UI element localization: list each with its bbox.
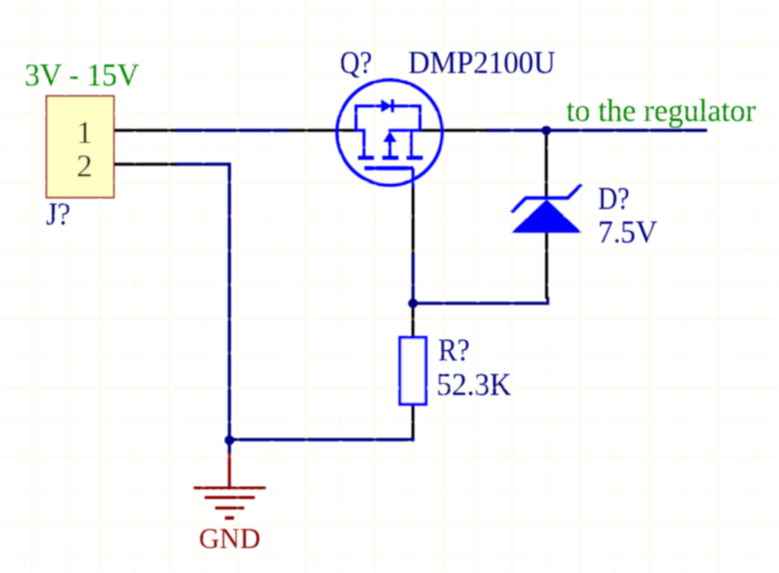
- pin 2 of J?: [114, 163, 179, 166]
- ground symbol: [194, 453, 266, 519]
- wire gate to junction: [411, 253, 414, 303]
- resistor R? body: [400, 338, 426, 405]
- wire drain to the regulator: [487, 129, 708, 132]
- diode D? anode pin: [545, 233, 548, 299]
- wire gnd stub below junction: [228, 440, 231, 454]
- svg-text:2: 2: [77, 147, 93, 183]
- svg-text:R?: R?: [438, 333, 470, 368]
- svg-text:1: 1: [77, 114, 93, 150]
- svg-text:7.5V: 7.5V: [598, 215, 658, 250]
- svg-text:GND: GND: [199, 524, 261, 555]
- wire junction to zener anode: [413, 297, 548, 303]
- transistor Q? body: [337, 80, 442, 187]
- svg-text:3V - 15V: 3V - 15V: [25, 58, 140, 93]
- resistor R? pin 1: [411, 306, 414, 337]
- transistor Q? source pin: [289, 129, 357, 132]
- wire ground rail horizontal: [229, 436, 413, 440]
- transistor Q? gate pin: [412, 186, 415, 255]
- diode D? cathode pin: [545, 130, 548, 197]
- svg-text:to the regulator: to the regulator: [566, 93, 756, 128]
- svg-text:DMP2100U: DMP2100U: [408, 45, 556, 80]
- svg-text:D?: D?: [598, 181, 629, 216]
- wire pin2 down to ground rail: [178, 164, 230, 440]
- svg-text:J?: J?: [46, 197, 70, 232]
- svg-text:52.3K: 52.3K: [437, 367, 512, 402]
- pin 1 of J?: [114, 129, 179, 132]
- junction node at drain / zener: [542, 126, 552, 136]
- transistor Q? drain pin: [420, 129, 488, 132]
- junction node at ground: [225, 435, 235, 445]
- junction node at gate / resistor: [408, 299, 418, 309]
- svg-text:Q?: Q?: [340, 45, 372, 80]
- resistor R? pin 2: [411, 406, 414, 438]
- wire pin1 to Q? source: [178, 129, 289, 132]
- connector J? body: [47, 96, 114, 198]
- zener diode D? body: [511, 184, 582, 233]
